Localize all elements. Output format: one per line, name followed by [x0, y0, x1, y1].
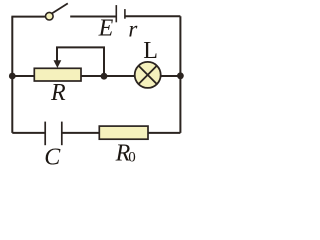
wire: bottom side, left segment [12, 132, 45, 134]
wire: middle branch, lamp to right side [161, 75, 181, 77]
svg-text:R0: R0 [115, 140, 136, 166]
resistor R0 body [99, 126, 148, 139]
wire: top side, left segment to switch [11, 16, 45, 18]
wire: rheostat slider tap to junction [57, 47, 104, 73]
battery E long plate [115, 5, 117, 22]
wire: middle branch, rheostat to lamp [81, 75, 135, 77]
wire: top side, switch to battery [70, 16, 116, 18]
wire: top side, battery to right corner [125, 15, 180, 17]
battery E short plate [124, 9, 126, 19]
switch S circle [46, 12, 54, 20]
junction dot on right side at lamp branch [177, 72, 184, 79]
svg-text:E: E [98, 16, 114, 42]
wire: right vertical side [179, 16, 181, 133]
svg-text:L: L [143, 38, 158, 64]
switch S blade [52, 3, 68, 13]
junction dot left (node on left side) [9, 73, 16, 80]
svg-text:R: R [50, 80, 66, 106]
wire: bottom side, middle segment (capacitor to R0) [62, 132, 100, 134]
rheostat slider arrowhead [54, 60, 62, 68]
junction dot right of rheostat tap [101, 73, 108, 80]
rheostat R body [34, 68, 81, 81]
svg-text:r: r [128, 16, 138, 41]
rheostat slider arrow stem [56, 47, 58, 61]
wire: middle branch, left segment to rheostat [12, 75, 34, 77]
svg-text:C: C [44, 144, 61, 169]
wire: bottom side, right segment [148, 132, 180, 134]
lamp L circle [135, 62, 161, 88]
capacitor C left plate [44, 122, 46, 146]
lamp L cross diagonal 1 [139, 66, 157, 84]
capacitor C right plate [61, 122, 63, 146]
wire: left vertical side [11, 17, 13, 133]
lamp L cross diagonal 2 [139, 66, 157, 84]
